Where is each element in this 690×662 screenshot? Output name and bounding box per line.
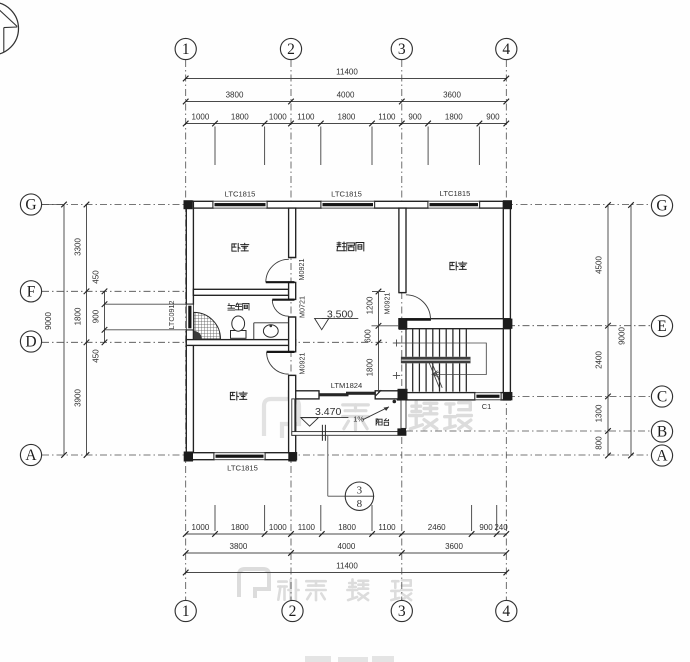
balcony east rail: [401, 399, 406, 429]
svg-text:11400: 11400: [336, 562, 358, 571]
svg-text:1800: 1800: [366, 358, 375, 376]
room label living char2: [347, 243, 355, 251]
svg-text:1100: 1100: [378, 113, 396, 122]
wall west, south of window LTC0912: [186, 330, 193, 460]
svg-text:E: E: [657, 318, 666, 335]
window C1: [475, 393, 501, 400]
grid bubble 4 top: [496, 38, 517, 59]
svg-text:3600: 3600: [445, 542, 463, 551]
column A/2: [288, 452, 296, 461]
svg-text:1100: 1100: [378, 523, 396, 532]
room label bedroom TL char2: [241, 243, 249, 251]
watermark center char she: [445, 403, 472, 429]
svg-text:8: 8: [357, 498, 363, 510]
wall grid2, between doors M0921 and M0721: [289, 282, 296, 299]
svg-text:900: 900: [408, 113, 422, 122]
watermark center char jian: [410, 402, 437, 429]
grid bubble 4 bottom: [496, 600, 517, 621]
column E/3: [399, 319, 407, 330]
svg-text:1800: 1800: [338, 113, 356, 122]
svg-text:450: 450: [92, 349, 101, 363]
svg-text:1800: 1800: [231, 113, 249, 122]
detail callout circle 3/8: [345, 482, 373, 510]
top dimension line small segments: [186, 123, 507, 125]
grid bubble G right: [651, 195, 672, 216]
internal dimension chain 1200/600/1800: [378, 292, 380, 393]
wall C-line stair bay, east of window C1: [501, 393, 510, 400]
label balcony char1: [376, 419, 382, 425]
svg-text:M0921: M0921: [297, 259, 306, 281]
door LTM1824 sliding leaves: [319, 393, 349, 396]
balcony south rail: [292, 432, 406, 436]
grid line G horizontal: [42, 204, 651, 206]
svg-text:1000: 1000: [192, 523, 210, 532]
washbasin counter: [254, 322, 289, 324]
room label bedroom BL char2: [239, 392, 247, 400]
grid line F horizontal: [42, 290, 187, 292]
left extension lines for bathroom window: [105, 303, 187, 305]
grid bubble 1 bottom: [175, 600, 196, 621]
top extension lines: [214, 127, 216, 166]
grid line E horizontal: [508, 325, 651, 327]
north compass: [0, 2, 19, 55]
washbasin: [263, 325, 278, 337]
svg-text:2: 2: [289, 603, 297, 620]
svg-text:3: 3: [398, 41, 406, 58]
window LTC0912 west wall: [186, 304, 193, 330]
svg-text:LTC0912: LTC0912: [167, 300, 176, 329]
svg-text:3300: 3300: [74, 238, 83, 256]
staircase treads lower flight: [406, 363, 466, 391]
svg-text:1: 1: [182, 603, 190, 620]
grid line D horizontal: [42, 341, 390, 343]
svg-text:3.470: 3.470: [315, 406, 341, 418]
svg-text:1300: 1300: [595, 404, 604, 422]
wall east: [503, 201, 510, 400]
watermark center logo: [264, 399, 299, 438]
wall living room south, west of door LTM1824: [289, 391, 319, 399]
grid bubble D left: [20, 331, 41, 352]
window LTC1815 top-3: [428, 201, 480, 208]
svg-text:1: 1: [182, 41, 190, 58]
wall E-line stair north: [399, 319, 511, 329]
wall west, north of window LTC0912: [186, 201, 193, 304]
svg-text:C1: C1: [482, 402, 491, 411]
wall F-line bathroom north: [193, 289, 288, 295]
wall south A-line, west segment: [186, 453, 214, 460]
svg-text:4000: 4000: [338, 542, 356, 551]
top dimension line 3800/4000/3600: [186, 101, 507, 103]
svg-text:1000: 1000: [192, 113, 210, 122]
grid bubble 2 bottom: [282, 600, 303, 621]
walk line arrow: [433, 372, 440, 378]
watermark bottom logo: [239, 569, 269, 598]
grid line B horizontal: [406, 430, 651, 432]
column E/4: [503, 319, 513, 329]
grid bubble 3 top: [391, 38, 412, 59]
svg-text:M0921: M0921: [298, 353, 307, 375]
bottom dimension line 3800/4000/3600: [186, 552, 507, 554]
wall living room south, east of door LTM1824: [375, 391, 399, 399]
grid line C horizontal: [508, 395, 651, 397]
column B/3 balcony corner: [397, 428, 406, 435]
detail callout leader: [327, 436, 329, 496]
svg-text:4: 4: [502, 603, 510, 620]
grid bubble G left: [20, 194, 41, 215]
svg-text:3900: 3900: [74, 389, 83, 407]
svg-text:4500: 4500: [595, 256, 604, 274]
grid bubble A left: [20, 444, 41, 465]
column G/4: [503, 200, 512, 209]
svg-text:1200: 1200: [366, 296, 375, 314]
grid bubble F left: [20, 281, 41, 302]
svg-text:G: G: [656, 198, 667, 215]
svg-text:3: 3: [357, 485, 363, 497]
wall grid2, top segment: [289, 208, 296, 258]
grid line A horizontal: [42, 454, 651, 456]
svg-text:9000: 9000: [618, 327, 627, 345]
svg-text:C: C: [657, 389, 667, 406]
svg-text:9000: 9000: [44, 312, 53, 330]
watermark bottom edge remnant: [305, 656, 394, 662]
wall grid2, bottom segment: [289, 375, 296, 452]
grid line 1 vertical: [185, 60, 187, 600]
room label living char3: [356, 243, 364, 252]
window LTC1815 top-2: [321, 201, 375, 208]
svg-text:900: 900: [92, 309, 101, 323]
room label bedroom BL char1: [230, 392, 238, 400]
label balcony char2: [384, 419, 388, 426]
balcony west rail: [292, 399, 295, 435]
left dimension line 9000: [63, 205, 65, 456]
right dimension chain 4500/2400/1300/800: [607, 205, 609, 456]
svg-text:1800: 1800: [74, 307, 83, 325]
bottom dimension line small segments: [186, 533, 507, 535]
svg-text:1000: 1000: [269, 113, 287, 122]
grid bubble 3 bottom: [391, 600, 412, 621]
svg-text:1800: 1800: [338, 523, 356, 532]
room label bedroom R char1: [450, 262, 458, 270]
svg-text:M0721: M0721: [298, 296, 307, 318]
bottom extension lines: [214, 505, 216, 531]
column A/1: [184, 452, 193, 462]
grid line 3 vertical: [401, 60, 403, 600]
svg-text:900: 900: [486, 113, 500, 122]
wall top, between windows LTC1815-1 and LTC1815-2: [267, 201, 321, 208]
svg-text:LTC1815: LTC1815: [440, 189, 471, 198]
svg-text:900: 900: [479, 523, 493, 532]
column C/3: [398, 389, 408, 401]
staircase walk line: [396, 343, 486, 375]
svg-text:3800: 3800: [226, 91, 244, 100]
wall grid2, between doors M0721 and M0921-2: [289, 317, 296, 352]
grid line 2 vertical: [290, 60, 292, 600]
watermark bottom char 1: [278, 580, 298, 600]
toilet: [231, 331, 247, 339]
svg-text:LTM1824: LTM1824: [331, 381, 363, 390]
svg-text:4: 4: [502, 41, 510, 58]
svg-text:3: 3: [398, 603, 406, 620]
grid line 4 vertical: [505, 60, 507, 600]
room label bathroom char3: [243, 303, 249, 310]
staircase break line: [429, 362, 440, 388]
grid bubble A right: [651, 445, 672, 466]
grid bubble 2 top: [280, 38, 301, 59]
svg-text:G: G: [25, 197, 36, 214]
grid bubble E right: [651, 315, 672, 336]
door M0721 bathroom: [272, 300, 288, 316]
svg-text:LTC1815: LTC1815: [331, 190, 362, 199]
walk line start marks: [396, 340, 398, 347]
svg-text:450: 450: [92, 270, 101, 284]
staircase middle handrail band: [401, 357, 471, 364]
room label bathroom char1: [228, 303, 235, 310]
watermark bottom char 2: [306, 581, 325, 600]
wall top, west of window LTC1815-1: [186, 201, 213, 208]
grid bubble B right: [651, 421, 672, 442]
svg-text:600: 600: [364, 329, 373, 343]
svg-text:1000: 1000: [269, 523, 287, 532]
right dimension line 9000: [630, 205, 632, 456]
svg-text:1100: 1100: [298, 523, 316, 532]
column C/4: [503, 392, 513, 400]
svg-text:800: 800: [595, 436, 604, 450]
left dimension chain 450/900/450: [104, 291, 106, 342]
wall top, between windows LTC1815-2 and LTC1815-3: [375, 201, 429, 208]
left dimension chain 3300/1800/3900: [86, 205, 88, 456]
door M0921 bedroom bottom-left: [267, 352, 289, 374]
svg-text:F: F: [27, 284, 36, 301]
window LTC1815 bottom: [214, 453, 265, 460]
grid bubble 1 top: [175, 38, 196, 59]
wall south A-line, east segment: [265, 453, 297, 460]
room label bedroom R char2: [459, 262, 467, 270]
bottom dimension line 11400: [186, 572, 507, 574]
staircase treads upper flight: [406, 329, 466, 357]
svg-text:A: A: [656, 448, 668, 465]
wall top, east of window LTC1815-3: [480, 201, 511, 208]
watermark center char 1: [343, 405, 369, 430]
section cut ticks on balcony rail: [321, 425, 323, 441]
grid bubble C right: [651, 386, 672, 407]
svg-text:LTC1815: LTC1815: [227, 464, 258, 473]
wall grid3: [399, 208, 406, 293]
svg-text:11400: 11400: [336, 68, 358, 77]
svg-text:1800: 1800: [445, 113, 463, 122]
room label bathroom char2: [235, 303, 242, 310]
door M0921 bedroom right: [406, 295, 431, 320]
svg-text:D: D: [25, 334, 36, 351]
svg-text:LTC1815: LTC1815: [225, 190, 256, 199]
watermark bottom char 4: [391, 580, 411, 600]
wall D-line bathroom south: [186, 340, 295, 346]
svg-text:B: B: [657, 424, 667, 441]
column G/1: [184, 200, 193, 209]
svg-text:1%: 1%: [353, 415, 364, 424]
svg-text:1100: 1100: [297, 113, 315, 122]
svg-text:2: 2: [287, 41, 295, 58]
svg-text:A: A: [25, 447, 37, 464]
svg-text:M0921: M0921: [383, 293, 392, 315]
watermark bottom char 3: [347, 579, 368, 600]
svg-text:3800: 3800: [230, 542, 248, 551]
left extension G: [42, 204, 64, 206]
slope 1% arrow: [363, 407, 389, 420]
svg-text:3600: 3600: [443, 91, 461, 100]
wall C-line stair bay, west of window C1: [397, 393, 475, 400]
svg-text:1800: 1800: [231, 523, 249, 532]
svg-text:4000: 4000: [337, 91, 355, 100]
room label living char1: [337, 242, 346, 251]
room label bedroom TL char1: [232, 243, 240, 251]
window LTC1815 top-1: [213, 201, 267, 208]
svg-text:2460: 2460: [428, 523, 446, 532]
door M0921 bedroom top-left: [266, 259, 289, 282]
top dimension line 11400: [186, 78, 507, 80]
svg-text:2400: 2400: [595, 351, 604, 369]
